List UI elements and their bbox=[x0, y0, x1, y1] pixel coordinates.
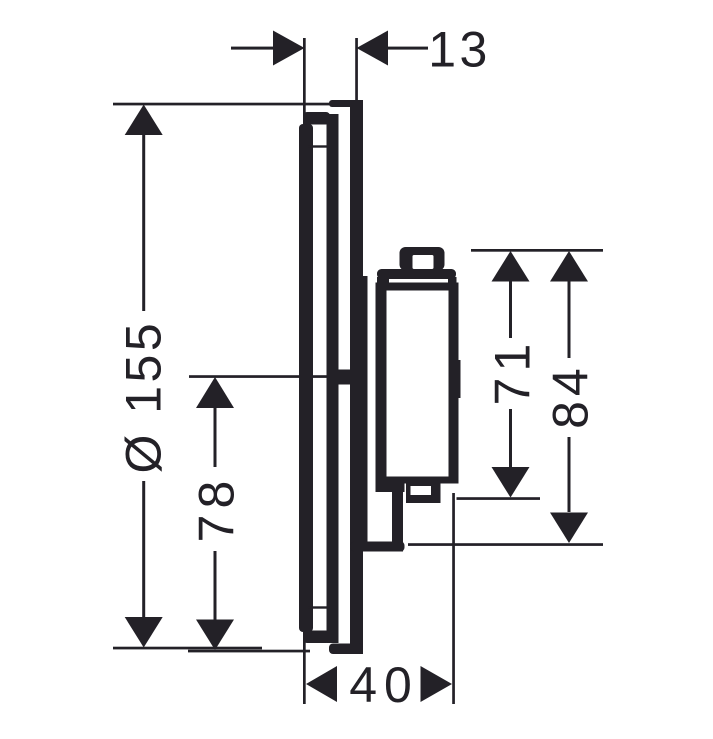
wire: bottom extension line (diameter) bbox=[113, 647, 262, 650]
svg-text:71: 71 bbox=[485, 338, 541, 406]
flange-to-body left bridge bbox=[377, 277, 389, 284]
valve body cap knob bbox=[400, 247, 445, 271]
body bottom-left corner bbox=[376, 477, 405, 493]
plate bevel edge bbox=[327, 114, 339, 643]
svg-text:13: 13 bbox=[428, 22, 491, 78]
plate bottom rim arm bbox=[303, 631, 330, 644]
wire: dim 13 left extension line bbox=[303, 38, 306, 124]
flange-to-body right bridge bbox=[448, 277, 457, 284]
dim 84 dimension line with arrows bbox=[550, 251, 588, 543]
dim 13 left arrow bbox=[231, 31, 305, 66]
dim 13 right arrow bbox=[357, 31, 429, 66]
wire: dim 13 right extension line bbox=[355, 38, 358, 106]
svg-text:Ø 155: Ø 155 bbox=[116, 320, 172, 474]
plate top rim arm bbox=[303, 112, 330, 125]
valve body flange bbox=[377, 269, 456, 279]
body sleeve left edge bbox=[358, 276, 368, 552]
lower block right edge bbox=[392, 488, 403, 552]
lower block bottom bbox=[351, 542, 405, 552]
dim 78 dimension line with arrows bbox=[196, 377, 234, 650]
valve body bottom step bbox=[406, 484, 441, 504]
wire: top-right extension line bbox=[471, 249, 603, 252]
wire: center extension line bbox=[189, 375, 332, 378]
dim 40 left arrow bbox=[306, 666, 337, 702]
plate back top cap bbox=[329, 100, 363, 107]
dim 71 dimension line with arrows bbox=[492, 251, 530, 498]
plate chamfer line top bbox=[308, 145, 327, 147]
dim Ø155 dimension line with arrows bbox=[125, 105, 163, 648]
plate back spine bbox=[350, 100, 363, 654]
wire: bottom extension line (84) bbox=[408, 543, 603, 546]
plate chamfer line bottom bbox=[308, 606, 327, 608]
svg-text:78: 78 bbox=[189, 475, 245, 543]
cartridge stem connector bbox=[336, 370, 351, 385]
plate back bottom cap bbox=[329, 644, 363, 655]
plate front face bbox=[299, 124, 313, 632]
dim 40 right arrow bbox=[421, 666, 453, 702]
wire: bottom extension line (78) bbox=[188, 650, 310, 653]
valve body outline bbox=[376, 283, 459, 484]
wire: dim 40 left extension line bbox=[303, 630, 306, 704]
svg-text:84: 84 bbox=[543, 363, 599, 429]
wire: top extension line (plate top) bbox=[113, 103, 357, 106]
wire: bottom extension line (71) bbox=[457, 497, 541, 500]
valve body right bump bbox=[454, 360, 461, 398]
svg-text:40: 40 bbox=[349, 657, 419, 713]
wire: dim 40 right extension line bbox=[452, 493, 455, 704]
